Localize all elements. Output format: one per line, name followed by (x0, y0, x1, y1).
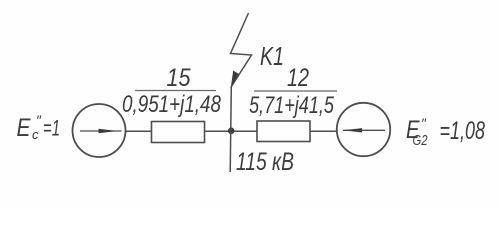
short-circuit bolt K1 (231, 13, 252, 88)
label E''G2=1,08 (406, 115, 485, 149)
generator G2 circle (right) (337, 103, 390, 156)
fault branch vertical wire (230, 87, 231, 172)
svg-text:0,951+j1,48: 0,951+j1,48 (122, 91, 222, 118)
svg-text:115 кВ: 115 кВ (236, 148, 294, 176)
node junction dot (228, 128, 235, 135)
svg-text:12: 12 (287, 64, 309, 92)
svg-text:G2: G2 (413, 132, 428, 149)
impedance box Z2 (line 12 km) (257, 121, 310, 142)
svg-text:=1,08: =1,08 (440, 117, 486, 145)
svg-text:=1: =1 (43, 116, 60, 141)
fraction bar over Z2 value (254, 90, 337, 92)
label E''c=1 (system EMF) (17, 112, 61, 142)
svg-text:5,71+j41,5: 5,71+j41,5 (249, 92, 334, 119)
wire: Z1 to fault node (205, 130, 258, 132)
generator/system source circle (left) (73, 104, 126, 157)
wire: left source to impedance Z1 (126, 130, 152, 132)
EMF direction arrow inside G2 (points left) (343, 128, 385, 132)
fraction bar over Z1 value (135, 90, 216, 92)
svg-text:E: E (17, 114, 31, 142)
svg-text:15: 15 (167, 64, 191, 92)
svg-text:c: c (32, 127, 39, 142)
EMF direction arrow inside left source (80, 129, 122, 133)
wire: Z2 to generator G2 (310, 130, 337, 132)
svg-text:K1: K1 (260, 41, 284, 71)
impedance box Z1 (line 15 km) (152, 122, 205, 143)
